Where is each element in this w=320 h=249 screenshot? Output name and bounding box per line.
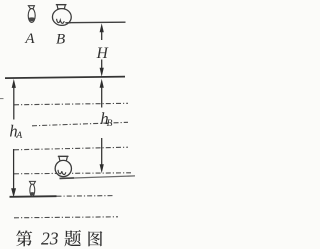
- svg-text:B: B: [107, 119, 113, 129]
- node line2: [5, 77, 125, 79]
- bomb B top: [52, 5, 71, 26]
- bomb A landed: [30, 181, 36, 196]
- dimension H arrow up: [100, 23, 104, 40]
- node ground-line: [10, 195, 57, 198]
- node dashdot2: [32, 122, 128, 126]
- svg-text:B: B: [56, 32, 65, 48]
- dimension hB arrow down: [100, 138, 104, 173]
- svg-text:23: 23: [41, 229, 59, 249]
- svg-text:H: H: [96, 45, 109, 62]
- svg-text:A: A: [24, 31, 35, 47]
- svg-text:A: A: [15, 131, 22, 141]
- node dashdot1: [14, 103, 128, 105]
- node dashdot4: [14, 173, 131, 174]
- dimension hB arrow up: [100, 79, 104, 108]
- node dashdot-bottom: [14, 217, 118, 218]
- node platform-line: [60, 176, 136, 179]
- dimension hA arrow up: [12, 79, 16, 120]
- dimension H arrow down: [100, 60, 104, 77]
- node dashdot3: [14, 147, 128, 150]
- bomb A top: [28, 6, 35, 23]
- caption 第23题图: [16, 229, 102, 249]
- wire top-line-stub: [65, 22, 70, 24]
- wire left-edge-tick: [0, 98, 4, 100]
- bomb B landed: [55, 156, 71, 176]
- node top-line: [66, 21, 126, 24]
- dimension hA arrow down: [11, 149, 16, 197]
